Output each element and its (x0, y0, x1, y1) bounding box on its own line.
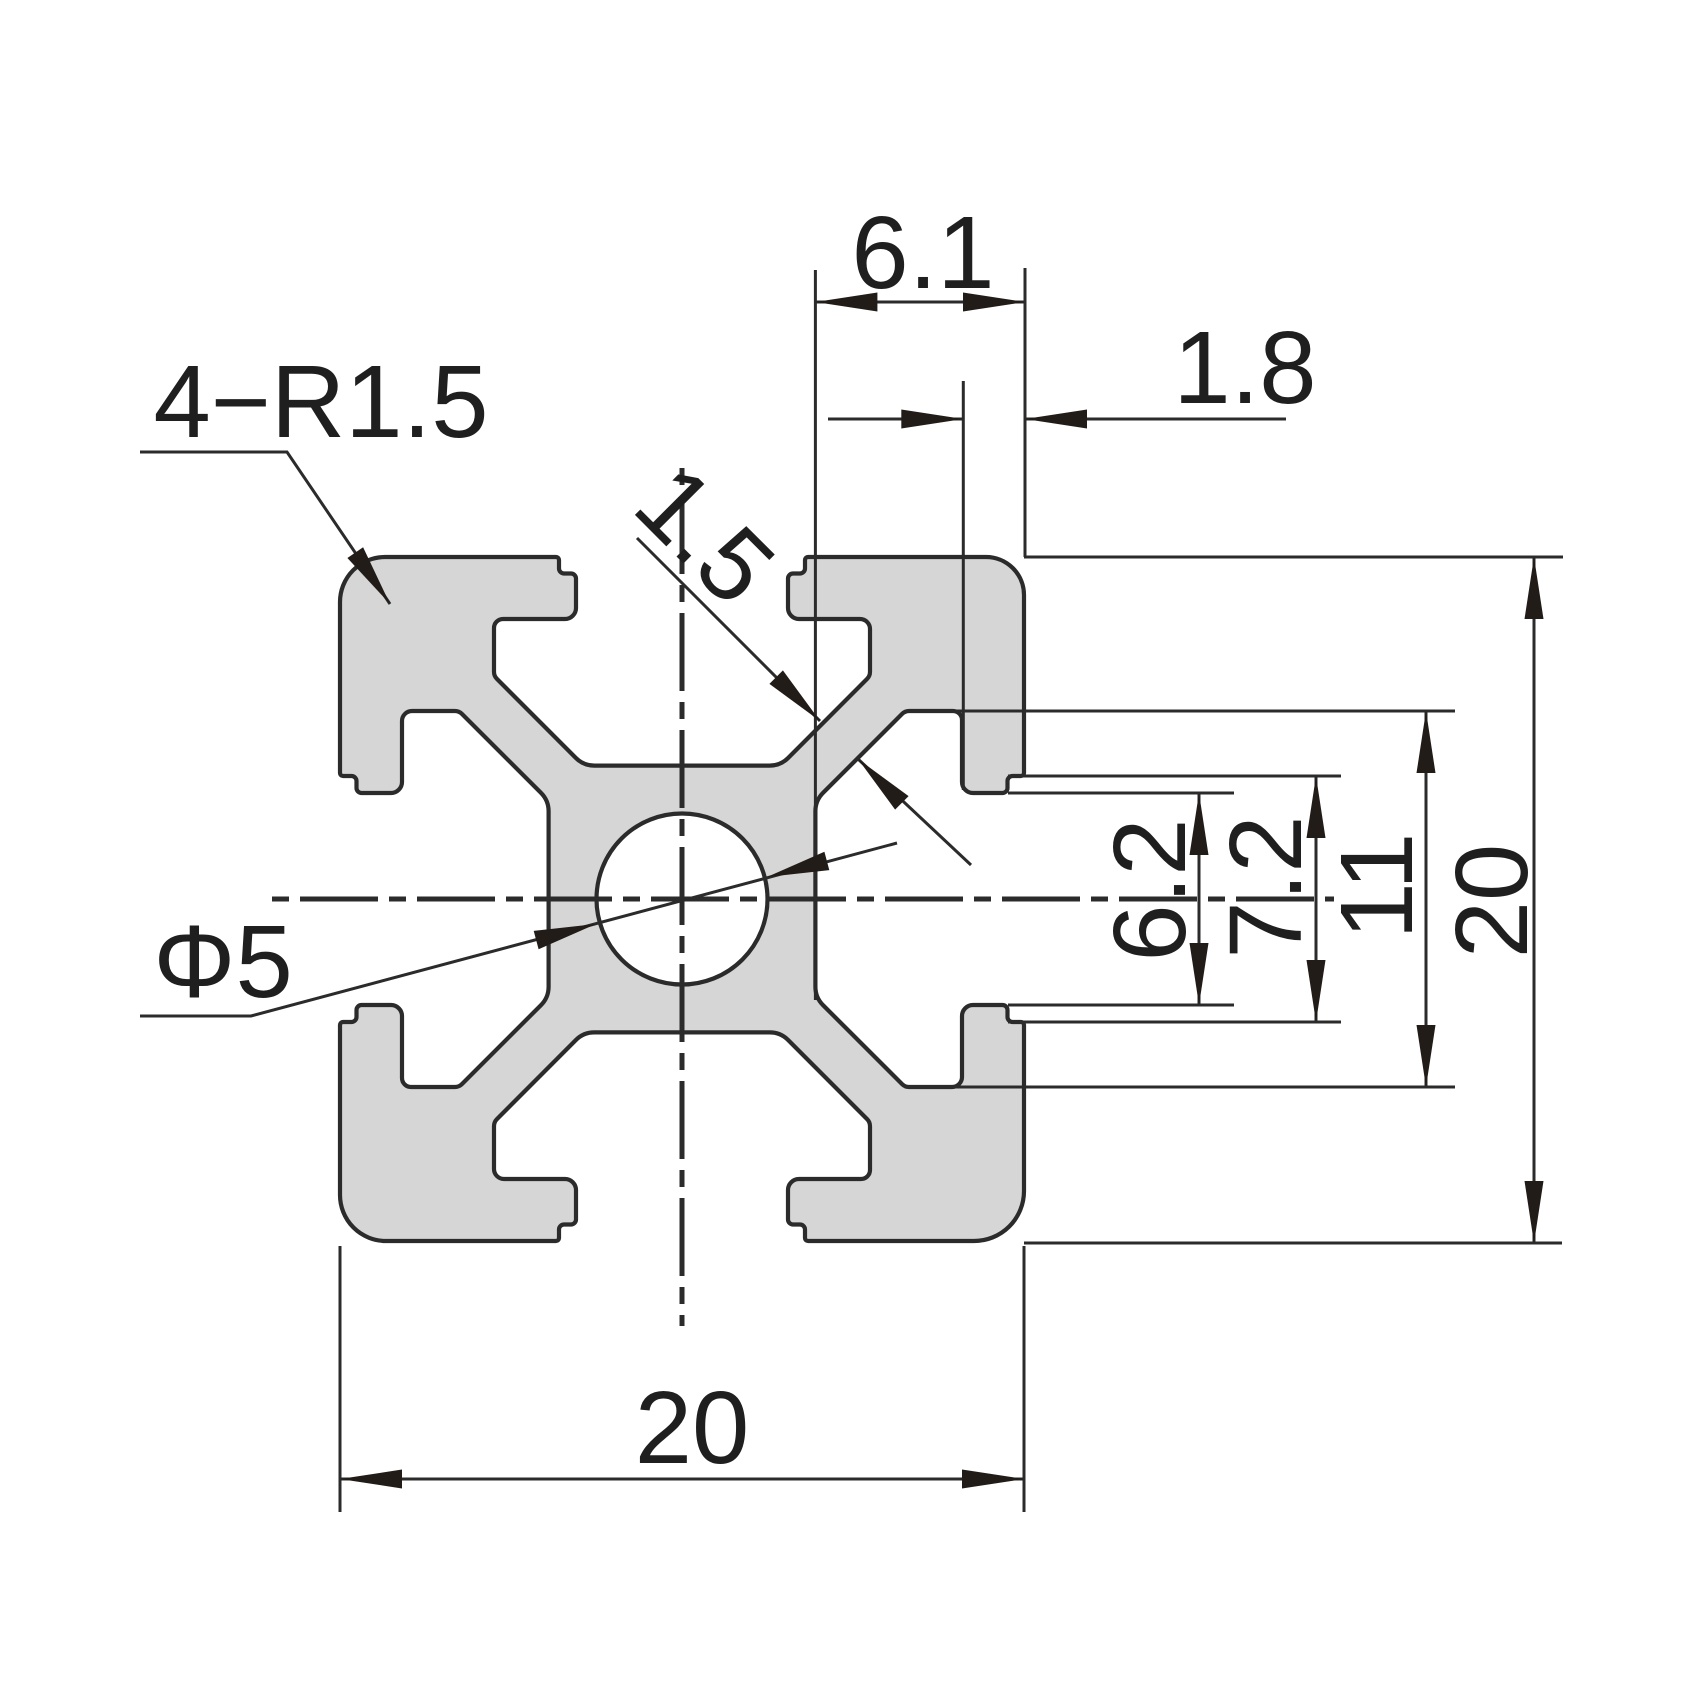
dim 1.8 extension line (962, 381, 965, 790)
dim 1.8 arrow right (1025, 410, 1087, 429)
dim 20 right dimension line (1533, 557, 1536, 1243)
dim 6.1 dimension line (815, 301, 1025, 304)
dim 1.5 arrow lower (858, 759, 909, 810)
dim 6.2 arrow bottom (1190, 943, 1209, 1005)
svg-text:20: 20 (635, 1370, 750, 1485)
dim 1.5 leader lower (858, 759, 971, 865)
dim 20 right extension bottom (1024, 1242, 1562, 1245)
dim 20 bottom dimension line (340, 1478, 1024, 1481)
svg-text:7.2: 7.2 (1208, 815, 1323, 958)
dim 7.2 extension top (1008, 775, 1341, 778)
svg-text:1.5: 1.5 (614, 444, 797, 627)
svg-text:Φ5: Φ5 (153, 904, 292, 1019)
label 4-R1.5 leader underline (140, 452, 390, 604)
label 4-R1.5 leader arrow (347, 547, 390, 604)
svg-text:4−R1.5: 4−R1.5 (153, 344, 488, 459)
dim 6.1 extension line left (slot floor) (814, 270, 817, 1000)
svg-text:20: 20 (1434, 844, 1549, 959)
svg-text:11: 11 (1319, 833, 1434, 940)
dim 7.2 dimension line (1315, 776, 1318, 1022)
dim 11 arrow top (1417, 711, 1436, 773)
dim 1.8 arrow left (901, 410, 963, 429)
dim 1.5 leader upper (637, 538, 820, 721)
horizontal centerline (272, 897, 1334, 902)
vertical centerline (680, 468, 685, 1326)
dim 6.2 extension bottom (1008, 1004, 1234, 1007)
dim 6.2 dimension line (1198, 793, 1201, 1005)
dim 11 arrow bottom (1417, 1025, 1436, 1087)
dim 20 bottom arrow right (962, 1470, 1024, 1489)
dim 20 bottom extension left (339, 1246, 342, 1512)
dim 1.8 dimension line left (828, 418, 963, 421)
dim 20 right extension top (1024, 556, 1563, 559)
dim 6.1 arrow right (963, 293, 1025, 312)
svg-text:6.1: 6.1 (851, 195, 994, 310)
dim Phi5 arrow right (767, 852, 829, 877)
dim 1.5 arrow upper (769, 670, 820, 721)
dim 6.2 arrow top (1190, 793, 1209, 855)
dim 7.2 arrow bottom (1307, 960, 1326, 1022)
dim 11 extension top (906, 710, 1455, 713)
dim Phi5 arrow left (534, 924, 596, 949)
profile cross-section body (340, 557, 1024, 1241)
center hole Phi5 (597, 814, 768, 985)
dim 6.1 arrow left (815, 293, 877, 312)
dim Phi5 leader (140, 843, 897, 1016)
dim 1.8 dimension line right (1025, 418, 1286, 421)
svg-text:1.8: 1.8 (1173, 310, 1316, 425)
dim 6.1 extension line right (1024, 268, 1027, 557)
dim 20 bottom extension right (1023, 1246, 1026, 1512)
dim 6.2 extension top (1008, 792, 1234, 795)
dim 20 bottom arrow left (340, 1470, 402, 1489)
svg-text:6.2: 6.2 (1092, 818, 1207, 961)
dim 20 right arrow bottom (1525, 1181, 1544, 1243)
dim 7.2 extension bottom (1008, 1021, 1341, 1024)
dim 20 right arrow top (1525, 557, 1544, 619)
dim 11 extension bottom (906, 1086, 1455, 1089)
dim 7.2 arrow top (1307, 776, 1326, 838)
dim 11 dimension line (1425, 711, 1428, 1087)
